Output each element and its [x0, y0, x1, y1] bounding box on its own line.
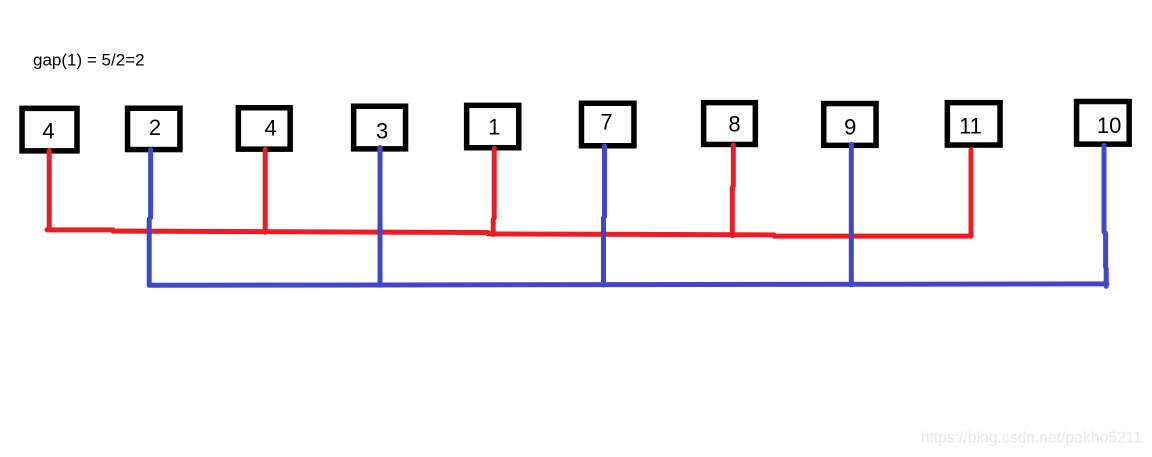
- box index4 value 1: [467, 105, 519, 147]
- box index9 value 10: [1077, 102, 1130, 145]
- blue wire stub from box index7: [849, 145, 854, 285]
- red wire stub from box index6 (with jog): [732, 145, 733, 236]
- svg-text:https://blog.csdn.net/pakho521: https://blog.csdn.net/pakho5211: [921, 430, 1142, 447]
- blue wire stub from box index5 (with jog): [604, 146, 605, 285]
- blue wire stub from box index3: [378, 148, 383, 286]
- svg-text:7: 7: [600, 110, 612, 135]
- svg-text:3: 3: [376, 119, 388, 144]
- box index0 value 4: [22, 108, 77, 151]
- svg-text:1: 1: [488, 115, 500, 140]
- box index5 value 7: [581, 103, 634, 146]
- box index8 value 11: [947, 103, 1000, 145]
- svg-text:8: 8: [728, 111, 740, 136]
- red wire stub from box index4 (with jog): [493, 149, 494, 235]
- box index6 value 8: [704, 103, 756, 145]
- svg-text:11: 11: [959, 113, 982, 138]
- svg-text:4: 4: [264, 116, 276, 141]
- svg-text:gap(1) = 5/2=2: gap(1) = 5/2=2: [33, 51, 145, 70]
- box index7 value 9: [824, 104, 876, 146]
- box index2 value 4: [238, 108, 290, 149]
- red wire stub from box index2: [263, 150, 268, 233]
- blue wire right vertical: up to box index9 (with jogs and bottom overshoot): [1104, 146, 1106, 287]
- svg-text:10: 10: [1097, 113, 1121, 138]
- svg-text:2: 2: [149, 115, 161, 140]
- blue wire main: from box index1 down, along horizontal bus to right end: [149, 150, 1107, 285]
- red wire main: from box index0 down, along horizontal bus, up to box index8: [47, 150, 971, 236]
- svg-text:4: 4: [42, 119, 54, 144]
- box index1 value 2: [128, 108, 180, 149]
- box index3 value 3: [354, 106, 406, 149]
- svg-text:9: 9: [844, 115, 856, 140]
